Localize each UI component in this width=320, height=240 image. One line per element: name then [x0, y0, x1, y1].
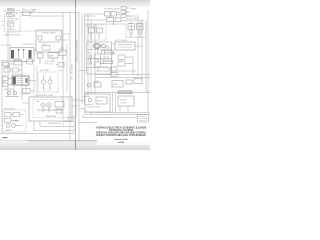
page number mark [3, 137, 8, 138]
wire cross spine [58, 70, 87, 72]
bottom page edge [28, 140, 97, 142]
mid right small group [87, 79, 142, 88]
svg-text:RESERVOIR: RESERVOIR [46, 116, 57, 118]
svg-text:BUCKET POSITION AND LEVEL SYST: BUCKET POSITION AND LEVEL SYSTEM ABOVE [96, 134, 146, 137]
page fold line [75, 0, 77, 150]
small boxes x111-117 [108, 67, 117, 77]
misc wires [19, 24, 142, 103]
svg-text:REL: REL [3, 81, 6, 83]
svg-text:TO LIFT CYL: TO LIFT CYL [44, 61, 53, 63]
pump P1 [7, 13, 14, 31]
svg-text:VALVE: VALVE [97, 100, 103, 103]
svg-text:TO TILT CYL: TO TILT CYL [44, 64, 53, 66]
wire main verticals [63, 12, 85, 140]
svg-text:DRIVE MOTOR: DRIVE MOTOR [4, 108, 15, 110]
control block [36, 30, 62, 52]
svg-text:LIFT CYL: LIFT CYL [103, 57, 110, 59]
wire tr [84, 14, 138, 21]
svg-text:P2: P2 [88, 59, 90, 61]
reservoir big box [29, 97, 72, 121]
svg-text:FLOW: FLOW [59, 48, 64, 50]
valve V9 [4, 68, 22, 72]
pump P4 [6, 124, 21, 128]
valve V8 [3, 77, 13, 87]
component K2 [23, 89, 35, 94]
pump P3 [37, 102, 64, 114]
svg-text:P1: P1 [88, 53, 90, 55]
valve V2 [38, 36, 61, 50]
small name box right [138, 115, 149, 123]
svg-text:SOL: SOL [8, 25, 11, 27]
wire spine extra [76, 14, 78, 118]
wire top horizontals [10, 13, 95, 32]
svg-text:LIFT SPOOL VALVE: LIFT SPOOL VALVE [104, 8, 120, 11]
svg-text:LIFT + TILT VALVE: LIFT + TILT VALVE [71, 63, 74, 80]
component K1 [3, 60, 22, 66]
right horizontal runs [95, 57, 150, 78]
node A [8, 31, 9, 32]
svg-text:TILT CYL: TILT CYL [102, 66, 108, 68]
accumulator A1 [93, 44, 105, 49]
svg-text:MOTOR: MOTOR [120, 100, 127, 102]
svg-text:SWING: SWING [94, 81, 100, 83]
pump group dashed [38, 72, 58, 92]
svg-text:PORT: PORT [112, 54, 116, 56]
valve V4 [105, 12, 127, 26]
wires down lower right [90, 93, 128, 114]
svg-text:CHECK: CHECK [15, 59, 22, 61]
terminal block T1 [1, 9, 15, 25]
valve V10 [24, 60, 33, 65]
valve V7 [95, 50, 101, 71]
hydraulic unit inner dashed [33, 100, 69, 118]
svg-text:LIFT CYLINDER: LIFT CYLINDER [115, 40, 128, 42]
svg-text:HYD PUMP: HYD PUMP [40, 70, 50, 72]
cylinder CYL2 [101, 60, 113, 64]
wire left drops [2, 31, 22, 133]
svg-text:RETURN: RETURN [2, 61, 9, 63]
svg-text:OIL COOLER: OIL COOLER [1, 45, 12, 47]
svg-text:SOL: SOL [43, 44, 46, 46]
title block text [96, 127, 147, 145]
valve V3b [59, 50, 66, 60]
right top small stack [121, 7, 130, 18]
valve module dashed (right) [86, 25, 106, 40]
valve V3 [38, 53, 59, 65]
relief valve module (top-left dashed box) [5, 11, 21, 33]
node B [18, 49, 25, 51]
valves x118-126 [118, 55, 133, 66]
small pumps bottom-left [5, 91, 19, 96]
svg-text:2 SPEED: 2 SPEED [120, 103, 127, 105]
pump P2 [41, 76, 52, 91]
svg-text:VALVE: VALVE [49, 55, 55, 58]
valve V6 [128, 21, 143, 38]
long bar [85, 91, 150, 94]
solenoid SL [11, 50, 14, 59]
orifice O1 [89, 55, 91, 64]
check valve CV2 [56, 63, 64, 68]
main chain enclosure [87, 42, 112, 74]
right bottom frame lines [74, 97, 150, 134]
cylinder CYL1 [102, 51, 114, 55]
svg-text:CONTROL VALVE: CONTROL VALVE [41, 32, 57, 35]
right-edge verticals [138, 10, 148, 112]
svg-text:SPOOL LOCK: SPOOL LOCK [12, 74, 24, 76]
cylinder block right [115, 42, 135, 50]
bottom routing wires left page [0, 118, 74, 134]
svg-text:Printed in U.S.A.: Printed in U.S.A. [114, 138, 128, 141]
svg-text:T: T [88, 65, 89, 67]
scanner band top [0, 0, 150, 7]
lower right boxes [85, 94, 134, 112]
svg-text:PORT: PORT [3, 75, 7, 77]
fold in bands [75, 0, 77, 150]
valve V13 [5, 113, 24, 123]
svg-text:HYDROSTATIC PUMP: HYDROSTATIC PUMP [36, 94, 54, 97]
valve V5 [89, 28, 103, 39]
svg-text:BOOM: BOOM [113, 84, 119, 86]
svg-text:B-1234: B-1234 [118, 141, 123, 144]
right bus wires [88, 14, 95, 96]
gauge G1 [6, 12, 17, 29]
scanner band bottom [0, 142, 150, 150]
wire column mid [34, 64, 37, 97]
svg-text:HYDRAULIC SCHEMATIC: HYDRAULIC SCHEMATIC [76, 39, 79, 62]
motor M1 [23, 10, 36, 16]
solenoid valve SV1 [12, 76, 29, 85]
solenoid SR [29, 50, 32, 59]
wire x67 [66, 44, 68, 92]
manifold block [10, 48, 36, 62]
wire res out [72, 100, 79, 106]
wire sv1 [14, 81, 36, 95]
left valve station dashed box [3, 110, 27, 132]
